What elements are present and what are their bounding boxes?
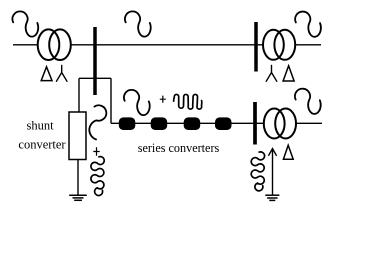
transformer T1 (top-left) <box>38 29 71 60</box>
plus polarity (shunt) <box>93 147 99 156</box>
delta winding symbol of T3 <box>283 145 293 159</box>
shunt converter box <box>69 112 86 160</box>
ground (shunt converter) <box>69 195 87 200</box>
series converter cell 4 <box>215 117 232 130</box>
wire top transmission line <box>13 44 321 46</box>
transformer T3 (bottom-right) <box>264 109 296 139</box>
wire series tap right vertical <box>110 78 112 123</box>
bus bar 2 (top right) <box>254 22 258 72</box>
AC sine symbol (vertical, at shunt converter) <box>89 105 106 139</box>
wire series line <box>111 122 322 124</box>
svg-text:series converters: series converters <box>138 141 220 155</box>
plus polarity (series) <box>160 96 166 103</box>
inductor coil (shunt converter, vertical) <box>91 157 104 196</box>
bus bar 3 (right, series line) <box>253 102 257 145</box>
wire shunt tap left vertical <box>78 78 80 112</box>
grounding arrow (bottom right) <box>268 149 276 195</box>
wire shunt tap horizontal <box>79 77 111 79</box>
series converter cell 3 <box>184 117 201 130</box>
AC source sine (top-right) <box>295 12 321 37</box>
svg-text:converter: converter <box>18 138 66 152</box>
AC source sine (series row) <box>124 90 150 115</box>
delta winding symbol of T2 <box>283 66 294 81</box>
bus bar 1 <box>93 27 97 95</box>
AC source sine (bottom-right) <box>295 89 321 114</box>
transformer T2 (top-right) <box>263 30 295 60</box>
inductor coil (bottom right, vertical) <box>251 152 264 191</box>
series converter cell 1 <box>119 117 136 130</box>
AC source sine (top middle) <box>125 11 151 36</box>
wye winding symbol of T2 <box>266 66 277 82</box>
svg-text:shunt: shunt <box>26 118 54 132</box>
delta winding symbol of T1 <box>41 67 52 81</box>
series converter cell 2 <box>151 117 168 130</box>
injected voltage coil (series row, horizontal) <box>174 94 202 109</box>
wye winding symbol of T1 <box>56 66 67 82</box>
wire shunt converter to ground <box>77 160 79 195</box>
AC source sine (top-left) <box>12 11 38 36</box>
ground (bottom right) <box>265 195 279 200</box>
